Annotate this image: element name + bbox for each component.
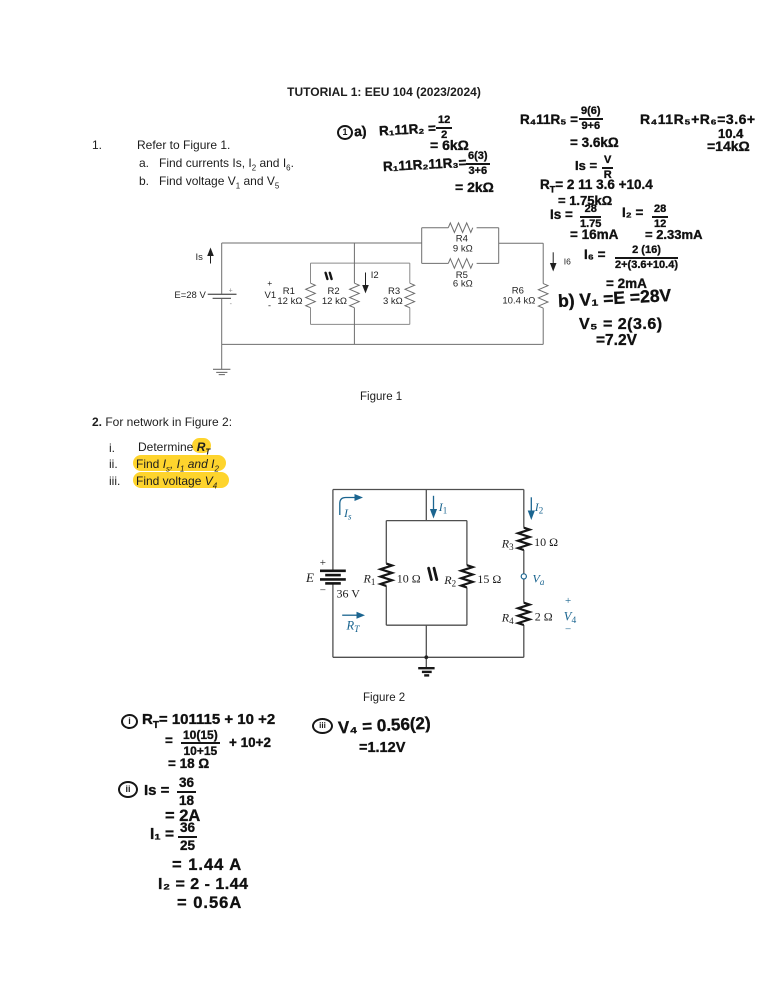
svg-text:R4: R4 — [501, 611, 514, 627]
hw circled ii — [118, 781, 138, 798]
RT arrow blue — [342, 612, 365, 619]
svg-text:−: − — [320, 585, 326, 597]
svg-text:Is: Is — [343, 506, 352, 522]
figure 1 caption — [360, 391, 402, 403]
wire right node vertical — [498, 228, 500, 264]
svg-text:R2: R2 — [443, 573, 456, 589]
parallel box around R1 R2 R3 — [311, 263, 410, 324]
wire box left stubs — [310, 263, 312, 283]
wire box right stubs — [409, 263, 411, 283]
ground fig2 — [418, 668, 434, 675]
svg-text:36 V: 36 V — [337, 586, 361, 600]
wire fig2 middle stem to bottom rail — [425, 625, 427, 657]
question 2 text — [92, 416, 232, 428]
svg-text:R3: R3 — [501, 537, 514, 553]
svg-text:−: − — [565, 624, 571, 636]
wire fig2 inner right lower — [466, 588, 468, 626]
Is bent arrow blue — [340, 494, 363, 515]
wire ground stem — [221, 344, 223, 369]
highlight on item ii — [133, 455, 226, 471]
resistor R1 — [306, 283, 316, 308]
svg-text:I1: I1 — [438, 500, 448, 516]
wire fig2 inner box top — [386, 520, 467, 522]
svg-text:-: - — [268, 301, 271, 311]
wire top rail — [222, 242, 422, 244]
highlight on item iii — [133, 472, 229, 488]
svg-text:Is: Is — [196, 252, 204, 263]
hw circled i — [121, 714, 138, 729]
svg-text:R1: R1 — [363, 571, 376, 587]
svg-text:E: E — [305, 570, 314, 585]
wire fig2 inner left lower — [385, 586, 387, 625]
svg-text:V1: V1 — [265, 290, 277, 301]
svg-text:10 Ω: 10 Ω — [397, 571, 421, 585]
handwritten parallel mark above R2 — [326, 273, 332, 279]
svg-text:I2: I2 — [534, 500, 544, 516]
resistor R4 — [448, 223, 473, 233]
wire fig2 right edge upper — [523, 490, 525, 528]
wire R5 branch right lead — [477, 262, 499, 264]
wire fig2 middle drop from top rail — [425, 490, 427, 521]
wire R5 branch left lead — [422, 262, 449, 264]
wire fig2 node a to R4 — [523, 579, 525, 603]
wire fig2 inner left upper — [385, 521, 387, 564]
resistor R2 — [350, 283, 360, 308]
highlight on RT — [192, 438, 211, 453]
wire fig2 bottom rail — [333, 656, 524, 658]
question 1 text — [92, 139, 102, 151]
svg-text:9 kΩ: 9 kΩ — [453, 244, 473, 255]
resistor R6 — [538, 284, 548, 309]
svg-text:RT: RT — [346, 619, 361, 636]
resistor R3 — [405, 283, 415, 308]
svg-text:-: - — [230, 301, 233, 308]
svg-text:+: + — [229, 288, 233, 295]
wire R6 top lead — [542, 243, 544, 283]
wire box top — [311, 262, 410, 264]
resistor R3 fig2 — [518, 528, 530, 550]
wire left branch lower (battery to bottom rail) — [221, 298, 223, 344]
wire fig2 inner box bottom — [386, 624, 467, 626]
wire fig2 ground stem — [425, 657, 427, 667]
wire fig2 top rail — [333, 489, 524, 491]
wire fig2 inner right upper — [466, 521, 468, 566]
svg-text:2 Ω: 2 Ω — [535, 609, 553, 623]
wire R6 bottom lead — [542, 308, 544, 344]
svg-text:Va: Va — [533, 571, 545, 587]
wire R4 branch left lead — [422, 227, 449, 229]
I1 arrow blue — [430, 496, 437, 519]
svg-text:12 kΩ: 12 kΩ — [277, 296, 302, 307]
I2 arrow — [362, 273, 369, 294]
svg-text:12 kΩ: 12 kΩ — [322, 296, 347, 307]
wire box bottom — [311, 323, 410, 325]
wire middle column R2 upper — [353, 243, 355, 283]
svg-text:3 kΩ: 3 kΩ — [383, 296, 403, 307]
wire block output horizontal — [499, 242, 544, 244]
hw circled 1 — [337, 125, 353, 140]
svg-text:+: + — [565, 595, 571, 607]
svg-text:10.4 kΩ: 10.4 kΩ — [502, 296, 535, 307]
junction dot — [424, 655, 428, 659]
I2 arrow blue — [528, 497, 535, 520]
printed title — [0, 86, 768, 98]
ground — [213, 369, 230, 374]
wire bottom rail — [222, 343, 544, 345]
wire left node vertical — [421, 228, 423, 264]
svg-text:10 Ω: 10 Ω — [534, 535, 558, 549]
wire middle column R2 lower — [353, 308, 355, 345]
svg-text:I6: I6 — [564, 257, 571, 267]
handwritten parallel mark fig2 — [429, 568, 437, 579]
battery E 36V — [320, 571, 346, 584]
Is arrow — [207, 248, 214, 264]
node Va circle — [521, 574, 526, 579]
battery E=28V — [208, 294, 237, 298]
resistor R5 — [448, 259, 473, 269]
figure 2 caption — [363, 692, 405, 704]
R4 R5 parallel block wires — [422, 228, 544, 345]
svg-text:E=28 V: E=28 V — [174, 290, 206, 301]
svg-text:+: + — [267, 278, 272, 288]
svg-text:+: + — [320, 557, 326, 569]
wire fig2 R3 to node a — [523, 550, 525, 574]
svg-text:I2: I2 — [371, 270, 379, 281]
wire fig2 left edge lower — [332, 583, 334, 657]
hw circled iii — [312, 718, 333, 734]
I6 arrow — [550, 252, 557, 271]
wire R4 branch right lead — [477, 227, 499, 229]
resistor R2 fig2 — [461, 565, 473, 587]
resistor R4 fig2 — [518, 603, 530, 625]
svg-text:6 kΩ: 6 kΩ — [453, 278, 473, 289]
resistor R1 fig2 — [380, 564, 392, 586]
wire fig2 left edge upper — [332, 490, 334, 571]
svg-text:15 Ω: 15 Ω — [477, 572, 501, 586]
wire left branch upper (battery to top rail) — [221, 243, 223, 294]
wire fig2 R4 to bottom rail — [523, 625, 525, 657]
